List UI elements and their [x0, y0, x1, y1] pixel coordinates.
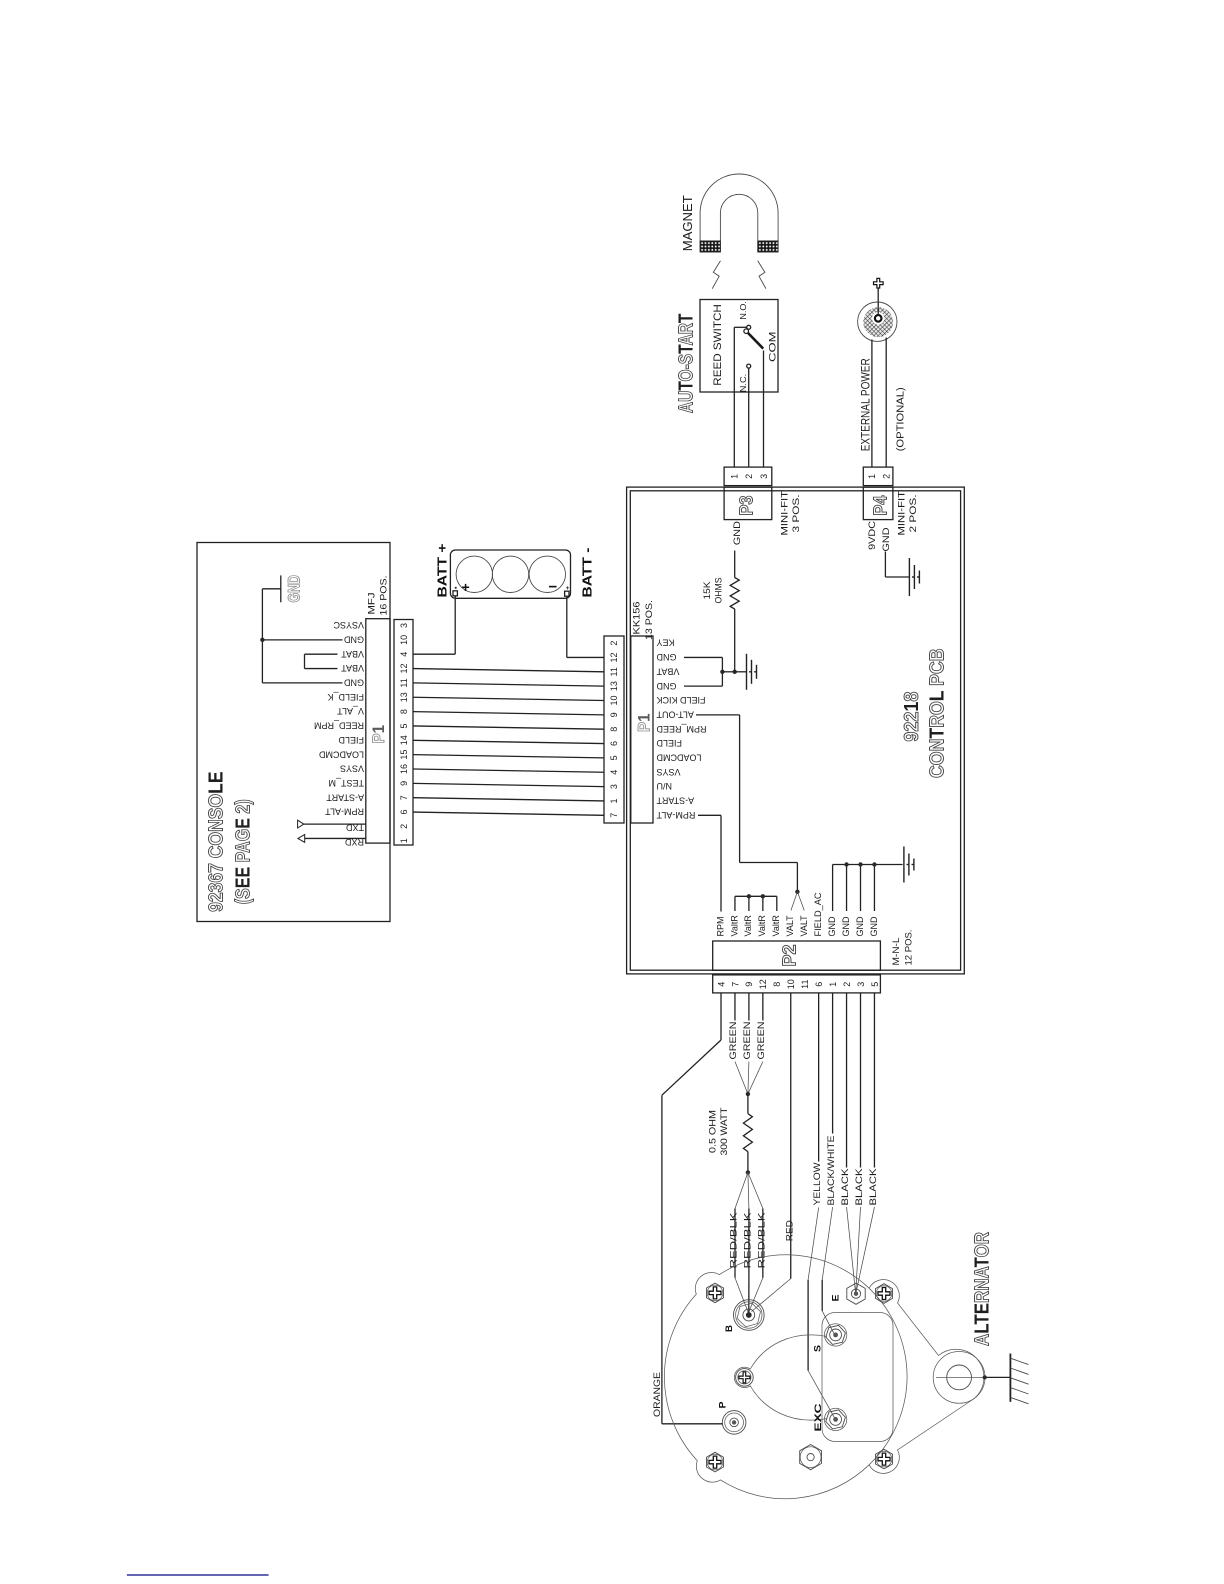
- screw bottom-left: [707, 1452, 724, 1472]
- svg-text:9VDC: 9VDC: [867, 521, 878, 550]
- svg-text:P1: P1: [370, 725, 388, 744]
- svg-text:10: 10: [399, 635, 409, 645]
- screw top-left: [707, 1283, 724, 1303]
- svg-text:BATT -: BATT -: [580, 548, 595, 598]
- svg-text:9: 9: [399, 781, 409, 786]
- wire yellow: P2-6 to EXC: [818, 993, 820, 1162]
- svg-text:4: 4: [609, 770, 619, 775]
- external power barrel jack: [858, 302, 897, 341]
- svg-text:11: 11: [399, 678, 409, 687]
- red/blk fan-out: [735, 1172, 748, 1208]
- node valtr1: [747, 894, 751, 898]
- svg-text:GND: GND: [827, 916, 837, 937]
- battery terminal squares: [453, 591, 457, 596]
- wire battery minus: [566, 596, 568, 657]
- svg-text:3: 3: [856, 982, 866, 987]
- svg-text:ValtR: ValtR: [743, 915, 753, 937]
- svg-text:(OPTIONAL): (OPTIONAL): [895, 387, 907, 451]
- resistor 15K OHMS: [730, 578, 739, 610]
- svg-text:1: 1: [399, 838, 409, 843]
- svg-text:MAGNET: MAGNET: [681, 195, 695, 251]
- svg-text:VBAT: VBAT: [656, 666, 679, 676]
- svg-text:12: 12: [758, 979, 768, 989]
- screw top-right: [876, 1284, 893, 1304]
- wires green: P2 7,9,12: [734, 993, 736, 1021]
- svg-text:(SEE PAGE 2): (SEE PAGE 2): [233, 799, 255, 904]
- svg-text:2: 2: [399, 824, 409, 829]
- green converge: [735, 1062, 748, 1095]
- svg-text:BLACK: BLACK: [840, 1168, 851, 1206]
- alternator body edge behind ear: [869, 1288, 907, 1465]
- wire P4 gnd to ground: [884, 552, 886, 578]
- svg-text:6: 6: [814, 982, 824, 987]
- svg-text:LOADCMD: LOADCMD: [318, 749, 364, 759]
- terminal EXC: [824, 1408, 846, 1430]
- svg-text:2: 2: [744, 474, 754, 479]
- svg-text:3: 3: [609, 784, 619, 789]
- reed switch box: [700, 300, 778, 393]
- svg-text:ALT-OUT: ALT-OUT: [656, 709, 694, 719]
- pulley axis line: [936, 1376, 985, 1378]
- connector P1 (MFJ) box: [366, 619, 390, 843]
- reed switch arm: [748, 333, 763, 349]
- node valtr2: [761, 894, 765, 898]
- svg-text:GREEN: GREEN: [756, 1021, 767, 1059]
- svg-text:V_ALT: V_ALT: [337, 706, 364, 716]
- node gnd2: [733, 670, 737, 674]
- field zigzag marks: [712, 261, 720, 289]
- ground (P1 gnd): [747, 654, 757, 690]
- svg-text:92367 CONSOLE: 92367 CONSOLE: [206, 771, 228, 912]
- svg-text:REED SWITCH: REED SWITCH: [712, 304, 724, 386]
- svg-text:TEST_M: TEST_M: [328, 778, 364, 788]
- svg-text:COM: COM: [768, 331, 779, 362]
- svg-text:N/U: N/U: [657, 781, 673, 791]
- svg-text:ValtR: ValtR: [757, 915, 767, 937]
- alternator body outline: [664, 1255, 984, 1499]
- svg-text:2: 2: [882, 474, 892, 479]
- wire COM to P3-3: [763, 351, 765, 468]
- svg-text:P3: P3: [737, 496, 757, 516]
- svg-text:BATT +: BATT +: [435, 543, 450, 597]
- svg-text:RPM: RPM: [715, 917, 725, 937]
- svg-text:EXTERNAL POWER: EXTERNAL POWER: [859, 358, 873, 451]
- node gndbus3: [872, 862, 876, 866]
- svg-text:B: B: [724, 1325, 735, 1332]
- node green: [746, 1092, 750, 1096]
- svg-text:EXC: EXC: [813, 1403, 824, 1431]
- node gndbus1: [844, 862, 848, 866]
- svg-text:RED/BLK: RED/BLK: [729, 1212, 740, 1269]
- svg-text:RPM-ALT: RPM-ALT: [325, 807, 364, 817]
- svg-text:11: 11: [800, 980, 810, 989]
- connector P4 box: [863, 487, 893, 519]
- svg-text:+: +: [462, 579, 470, 595]
- alternator pulley boss: [933, 1352, 985, 1404]
- node gnd1: [720, 670, 724, 674]
- svg-text:BLACK/WHITE: BLACK/WHITE: [826, 1136, 837, 1206]
- wire N.O. to P3-1: [734, 326, 746, 328]
- svg-text:A-START: A-START: [326, 792, 364, 802]
- svg-text:FIELD_AC: FIELD_AC: [813, 892, 823, 937]
- svg-text:AUTO-START: AUTO-START: [675, 314, 697, 414]
- svg-text:LOADCMD: LOADCMD: [656, 753, 702, 763]
- svg-text:GND: GND: [344, 634, 365, 644]
- svg-text:13: 13: [609, 681, 619, 691]
- wire battery plus: [454, 596, 456, 654]
- connector P3 pin box: [724, 467, 772, 486]
- connector P2 pin-number box: [713, 975, 881, 993]
- svg-text:GND: GND: [881, 527, 892, 551]
- wire gnd stub: [262, 588, 280, 590]
- svg-text:P4: P4: [871, 496, 891, 516]
- svg-text:GND: GND: [855, 916, 865, 937]
- svg-text:VSYS: VSYS: [657, 767, 681, 777]
- svg-text:FIELD: FIELD: [338, 735, 364, 745]
- svg-text:5: 5: [870, 982, 880, 987]
- chassis ground (hatched): [1009, 1354, 1011, 1402]
- svg-text:16 POS.: 16 POS.: [379, 576, 390, 616]
- screw bottom-right: [876, 1449, 893, 1469]
- ground (P4): [909, 558, 919, 596]
- svg-text:N.O.: N.O.: [738, 301, 748, 320]
- svg-text:GND: GND: [344, 678, 365, 688]
- wire RXD with arrow: [305, 837, 366, 839]
- red/blk converge to B: [735, 1278, 748, 1313]
- svg-text:GND: GND: [656, 652, 677, 662]
- wire ValtR tie bracket: [735, 895, 777, 897]
- connector P3 box: [724, 487, 772, 519]
- svg-text:92218: 92218: [901, 692, 923, 742]
- terminal P: [722, 1411, 746, 1435]
- svg-text:GREEN: GREEN: [728, 1021, 739, 1059]
- wire to case ground: [985, 1376, 1010, 1378]
- svg-text:8: 8: [399, 709, 409, 714]
- reed switch contacts: [747, 325, 751, 329]
- node valt: [795, 890, 799, 894]
- svg-text:ALTERNATOR: ALTERNATOR: [972, 1232, 994, 1346]
- svg-text:13 POS.: 13 POS.: [644, 600, 655, 640]
- control PCB 92218 border (double): [627, 487, 965, 974]
- svg-text:0.5 OHM: 0.5 OHM: [708, 1110, 719, 1153]
- svg-text:FIELD: FIELD: [656, 738, 682, 748]
- svg-text:2 POS.: 2 POS.: [908, 495, 919, 533]
- svg-text:GND: GND: [841, 916, 851, 937]
- ground (P2 bus): [904, 847, 914, 883]
- svg-text:BLACK: BLACK: [854, 1168, 865, 1206]
- svg-text:OHMS: OHMS: [714, 578, 725, 604]
- svg-text:GND: GND: [732, 521, 743, 545]
- svg-text:P: P: [718, 1401, 729, 1409]
- wire orange: P2-4 to alternator P: [720, 993, 722, 1040]
- page footer link line: [127, 1574, 269, 1576]
- svg-text:S: S: [813, 1345, 824, 1352]
- svg-text:GND: GND: [286, 575, 304, 603]
- svg-text:VBAT: VBAT: [341, 649, 364, 659]
- svg-text:VSYS: VSYS: [340, 764, 364, 774]
- wire P2 gnd bus: [833, 864, 903, 866]
- svg-text:VBAT: VBAT: [341, 663, 364, 673]
- svg-text:5: 5: [609, 755, 619, 760]
- svg-text:9: 9: [744, 982, 754, 987]
- svg-text:−: −: [549, 579, 558, 596]
- svg-text:GND: GND: [656, 681, 677, 691]
- bottom hex nut: [800, 1445, 822, 1470]
- terminal E: [847, 1283, 865, 1304]
- svg-text:3: 3: [399, 623, 409, 628]
- svg-text:KK156: KK156: [632, 602, 643, 635]
- magnet (horseshoe): [700, 174, 778, 252]
- svg-text:FIELD_K: FIELD_K: [327, 692, 364, 702]
- svg-text:6: 6: [609, 741, 619, 746]
- node gnd junction: [260, 638, 264, 642]
- svg-text:KEY: KEY: [657, 638, 675, 648]
- svg-text:RPM-ALT: RPM-ALT: [656, 810, 695, 820]
- wire black/white: P2-1 to S: [832, 993, 834, 1134]
- connector P1 box on PCB: [631, 636, 653, 823]
- svg-text:4: 4: [399, 652, 409, 657]
- svg-text:12 POS.: 12 POS.: [904, 930, 915, 966]
- center screw: [736, 1369, 754, 1387]
- svg-text:P1: P1: [636, 714, 654, 733]
- gnd symbol (console): [280, 575, 282, 602]
- svg-text:RED/BLK: RED/BLK: [756, 1212, 767, 1269]
- wire RPM-ALT to P2 RPM: [698, 814, 721, 816]
- svg-text:BLACK: BLACK: [868, 1168, 879, 1206]
- svg-text:1: 1: [609, 798, 619, 803]
- connector P1 pin-number box (16 pos): [394, 620, 413, 846]
- svg-text:CONTROL PCB: CONTROL PCB: [927, 648, 949, 778]
- ribbon wires P1 to P1: [413, 669, 604, 672]
- svg-text:1: 1: [828, 982, 838, 987]
- svg-text:1: 1: [730, 474, 740, 479]
- svg-text:2: 2: [842, 982, 852, 987]
- wire gnd vertical: [261, 589, 263, 683]
- svg-text:E: E: [831, 1295, 842, 1302]
- connector P2 box: [713, 941, 881, 970]
- terminal S: [824, 1324, 846, 1346]
- wires black: P2 2,3,5 to E: [846, 993, 848, 1168]
- svg-text:8: 8: [772, 982, 782, 987]
- svg-text:15K: 15K: [702, 581, 713, 600]
- svg-text:7: 7: [399, 795, 409, 800]
- svg-text:12: 12: [609, 652, 619, 662]
- wire GND pin jumper: [684, 656, 722, 658]
- svg-text:ValtR: ValtR: [729, 915, 739, 937]
- svg-text:13: 13: [399, 692, 409, 702]
- svg-text:YELLOW: YELLOW: [812, 1162, 823, 1205]
- svg-text:VALT: VALT: [799, 915, 809, 937]
- resistor 0.5 OHM 300 WATT: [743, 1114, 752, 1152]
- svg-text:FIELD KICK: FIELD KICK: [657, 695, 706, 705]
- rotor hump around center screw: [734, 1335, 827, 1420]
- svg-text:3 POS.: 3 POS.: [791, 495, 802, 533]
- svg-text:M-N-L: M-N-L: [891, 938, 902, 966]
- svg-text:14: 14: [399, 735, 409, 745]
- battery symbol BATT: [450, 550, 570, 598]
- regulator plate: [822, 1313, 893, 1442]
- svg-text:8: 8: [609, 727, 619, 732]
- wire jack to P4: [871, 340, 873, 468]
- svg-text:MINI-FIT: MINI-FIT: [780, 491, 791, 536]
- svg-text:4: 4: [716, 982, 726, 987]
- svg-text:5: 5: [399, 723, 409, 728]
- magnet pole caps (hatched): [700, 241, 720, 252]
- wire GND row5: [262, 682, 342, 684]
- svg-text:9: 9: [609, 712, 619, 717]
- terminal B: [734, 1300, 765, 1331]
- wire red: P2-10 to B: [790, 993, 792, 1279]
- svg-text:3: 3: [759, 474, 769, 479]
- svg-text:P2: P2: [780, 945, 800, 967]
- svg-text:300 WATT: 300 WATT: [719, 1107, 730, 1155]
- svg-text:10: 10: [609, 695, 619, 705]
- svg-text:2: 2: [609, 641, 619, 646]
- node redblk: [746, 1170, 750, 1174]
- svg-text:N.C.: N.C.: [738, 374, 748, 393]
- svg-text:ValtR: ValtR: [771, 915, 781, 937]
- svg-text:+: +: [566, 586, 570, 592]
- svg-text:A-START: A-START: [656, 796, 694, 806]
- svg-text:10: 10: [786, 979, 796, 989]
- svg-text:VALT: VALT: [785, 915, 795, 937]
- wire N.C. to P3-2: [748, 368, 750, 467]
- svg-text:RPM_REED: RPM_REED: [656, 724, 707, 734]
- svg-text:VSYSC: VSYSC: [333, 620, 364, 630]
- svg-text:7: 7: [609, 813, 619, 818]
- svg-text:RED: RED: [784, 1220, 795, 1241]
- svg-text:6: 6: [399, 810, 409, 815]
- node case ground tap: [983, 1375, 987, 1379]
- wire GND row2: [262, 639, 342, 641]
- svg-text:GND: GND: [869, 916, 879, 937]
- svg-text:11: 11: [609, 667, 619, 676]
- plus marker: [874, 278, 884, 288]
- svg-text:ORANGE: ORANGE: [652, 1372, 663, 1417]
- svg-text:REED_RPM: REED_RPM: [314, 721, 364, 731]
- svg-text:MINI-FIT: MINI-FIT: [897, 491, 908, 536]
- svg-text:7: 7: [730, 982, 740, 987]
- svg-text:16: 16: [399, 764, 409, 774]
- wire ALT-OUT to VALT: [696, 714, 740, 716]
- svg-text:12: 12: [399, 664, 409, 674]
- svg-text:1: 1: [867, 474, 877, 479]
- node gndbus2: [858, 862, 862, 866]
- wire plus to jack: [877, 288, 879, 315]
- svg-text:MFJ: MFJ: [367, 592, 378, 614]
- wire resistor to gnd node: [734, 609, 736, 672]
- console 92367 box: [197, 543, 390, 922]
- wire TXD with arrow: [304, 823, 366, 825]
- wire VBAT loop: [305, 653, 338, 655]
- connector P4 pin box: [863, 467, 893, 486]
- svg-text:RED/BLK: RED/BLK: [742, 1212, 753, 1269]
- svg-text:15: 15: [399, 750, 409, 760]
- connector P1 pin-number box (13 pos KK156): [604, 636, 624, 823]
- svg-text:GREEN: GREEN: [742, 1021, 753, 1059]
